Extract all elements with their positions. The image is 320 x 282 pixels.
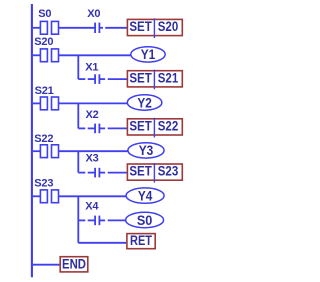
svg-text:X2: X2	[86, 109, 99, 121]
wire rung4 rail to S22 contact	[33, 150, 41, 152]
wire rung1 rail to S0 contact	[33, 27, 41, 29]
STL contact S22	[40, 145, 58, 158]
contact X0	[95, 23, 99, 33]
wire X3 to SET S23	[99, 172, 127, 174]
STL contact S23	[40, 190, 58, 203]
svg-text:S22: S22	[34, 133, 53, 145]
svg-text:S21: S21	[35, 85, 54, 97]
coil Y4	[126, 188, 164, 203]
svg-text:S0: S0	[38, 8, 51, 20]
wire X2 to SET S22	[99, 127, 127, 129]
branch wire rung4 down	[77, 151, 79, 172]
coil Y2	[127, 95, 162, 110]
instruction box RET	[127, 233, 155, 249]
branch wire rung3 down	[77, 103, 79, 128]
svg-text:S21: S21	[158, 70, 179, 85]
instruction box SET S20	[127, 18, 182, 38]
svg-text:Y3: Y3	[139, 143, 154, 158]
svg-text:S0: S0	[137, 213, 153, 228]
STL contact S20	[40, 49, 58, 62]
coil S0	[126, 212, 164, 227]
left power rail	[31, 4, 33, 277]
wire branch to X3	[78, 172, 95, 174]
instruction box SET S21	[127, 70, 182, 90]
wire branch to X4	[78, 219, 95, 221]
contact X1	[95, 74, 99, 84]
wire rung2 rail to S20 contact	[33, 54, 41, 56]
wire S21 contact to coil Y2	[59, 102, 128, 104]
wire rung5 rail to S23 contact	[33, 195, 41, 197]
svg-text:S22: S22	[158, 118, 179, 133]
svg-text:S23: S23	[34, 177, 53, 189]
svg-text:S20: S20	[158, 19, 179, 34]
wire X0 to SET S20	[99, 27, 127, 29]
wire S23 contact to coil Y4	[59, 195, 127, 197]
instruction box END	[60, 256, 88, 272]
contact X4	[95, 216, 99, 226]
svg-text:SET: SET	[129, 70, 152, 85]
wire rung3 rail to S21 contact	[33, 102, 41, 104]
svg-text:SET: SET	[129, 118, 152, 133]
contact X3	[95, 168, 99, 178]
instruction box SET S22	[127, 118, 182, 138]
contact X2	[95, 124, 99, 134]
svg-text:END: END	[62, 256, 86, 271]
svg-text:X3: X3	[86, 152, 99, 164]
wire X4 to coil S0	[99, 219, 125, 221]
svg-text:Y4: Y4	[138, 188, 153, 203]
coil Y1	[131, 47, 165, 62]
wire branch to RET	[78, 242, 127, 244]
svg-text:X0: X0	[87, 8, 100, 20]
svg-text:RET: RET	[130, 233, 153, 248]
svg-text:X4: X4	[85, 200, 99, 212]
wire S22 contact to coil Y3	[59, 150, 128, 152]
wire S0 contact to X0	[59, 27, 96, 29]
svg-text:S23: S23	[158, 164, 179, 179]
svg-text:SET: SET	[129, 164, 152, 179]
svg-text:SET: SET	[129, 19, 152, 34]
STL contact S21	[40, 97, 58, 110]
wire S20 contact to coil Y1	[59, 54, 131, 56]
wire X1 to SET S21	[99, 78, 127, 80]
branch wire rung5 down	[77, 196, 79, 243]
wire rail to END	[33, 264, 60, 266]
svg-text:X1: X1	[85, 61, 98, 73]
instruction box SET S23	[127, 163, 182, 183]
svg-text:S20: S20	[34, 36, 53, 48]
wire branch to X2	[78, 127, 95, 129]
coil Y3	[128, 143, 164, 158]
svg-text:Y1: Y1	[141, 47, 156, 62]
STL contact S0	[40, 21, 58, 34]
branch wire rung2 down	[77, 55, 79, 79]
wire branch to X1	[78, 78, 95, 80]
svg-text:Y2: Y2	[137, 95, 152, 110]
